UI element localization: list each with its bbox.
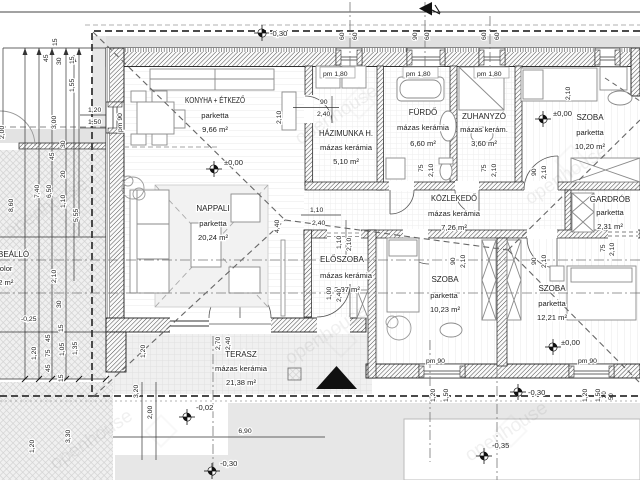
- svg-text:parketta: parketta: [201, 111, 229, 120]
- svg-text:2,10: 2,10: [609, 243, 616, 256]
- svg-text:2,10: 2,10: [565, 87, 572, 100]
- svg-text:1,35: 1,35: [72, 342, 79, 355]
- svg-text:75: 75: [418, 164, 425, 172]
- svg-text:parketta: parketta: [538, 299, 566, 308]
- svg-text:10,23 m²: 10,23 m²: [430, 305, 460, 314]
- svg-text:2,00: 2,00: [147, 406, 154, 419]
- svg-text:pm 90: pm 90: [578, 358, 597, 365]
- svg-text:1,50: 1,50: [595, 389, 602, 402]
- svg-text:6,90: 6,90: [238, 428, 251, 435]
- svg-text:pm 90: pm 90: [117, 113, 124, 132]
- svg-text:2,40: 2,40: [312, 220, 325, 227]
- svg-text:color: color: [0, 264, 13, 273]
- svg-text:NAPPALI: NAPPALI: [196, 204, 229, 213]
- svg-text:FÜRDŐ: FÜRDŐ: [409, 108, 437, 117]
- svg-text:90: 90: [320, 99, 328, 106]
- svg-text:pm 90: pm 90: [426, 358, 445, 365]
- svg-text:±0,00: ±0,00: [553, 109, 572, 118]
- svg-text:mázas kerámia: mázas kerámia: [397, 123, 450, 132]
- svg-text:60: 60: [339, 32, 346, 40]
- svg-text:45: 45: [45, 334, 52, 342]
- svg-text:KONYHA + ÉTKEZŐ: KONYHA + ÉTKEZŐ: [185, 96, 245, 105]
- svg-text:-0,02: -0,02: [196, 403, 213, 412]
- svg-text:50: 50: [609, 393, 615, 400]
- svg-text:2,10: 2,10: [491, 164, 498, 177]
- svg-text:1,20: 1,20: [140, 345, 147, 358]
- svg-text:60: 60: [494, 32, 501, 40]
- svg-text:1,20: 1,20: [88, 107, 101, 114]
- svg-text:1,20: 1,20: [582, 389, 589, 402]
- svg-text:SZOBA: SZOBA: [538, 284, 566, 293]
- svg-text:BEÁLLÓ: BEÁLLÓ: [0, 250, 29, 259]
- svg-text:20: 20: [602, 391, 608, 398]
- svg-text:2,10: 2,10: [276, 111, 283, 124]
- svg-text:GARDRÓB: GARDRÓB: [590, 195, 630, 204]
- svg-text:90: 90: [450, 257, 457, 265]
- svg-text:45: 45: [45, 364, 52, 372]
- svg-text:7,40: 7,40: [34, 185, 41, 198]
- svg-text:90: 90: [531, 168, 538, 176]
- svg-text:30: 30: [56, 300, 63, 308]
- svg-text:75: 75: [481, 164, 488, 172]
- svg-text:1,20: 1,20: [430, 389, 437, 402]
- svg-text:mázas kerámia: mázas kerámia: [428, 209, 481, 218]
- svg-text:-0,25: -0,25: [21, 316, 37, 323]
- svg-text:2,10: 2,10: [428, 164, 435, 177]
- svg-text:45: 45: [49, 152, 56, 160]
- svg-text:1,10: 1,10: [310, 207, 323, 214]
- svg-text:-0,30: -0,30: [270, 29, 287, 38]
- svg-text:±0,00: ±0,00: [561, 338, 580, 347]
- svg-text:75: 75: [45, 349, 52, 357]
- svg-text:15: 15: [69, 56, 76, 64]
- svg-text:1,20: 1,20: [29, 440, 36, 453]
- svg-text:mázas kerámia: mázas kerámia: [215, 364, 268, 373]
- svg-text:SZOBA: SZOBA: [431, 275, 459, 284]
- svg-text:75: 75: [600, 244, 607, 252]
- svg-text:3,20: 3,20: [133, 385, 140, 398]
- svg-text:±0,00: ±0,00: [224, 158, 243, 167]
- svg-text:ELŐSZOBA: ELŐSZOBA: [320, 255, 365, 264]
- svg-text:32 m²: 32 m²: [0, 278, 14, 287]
- svg-text:TERASZ: TERASZ: [225, 350, 257, 359]
- svg-text:parketta: parketta: [199, 219, 227, 228]
- svg-text:1,05: 1,05: [59, 343, 66, 356]
- svg-text:2,10: 2,10: [346, 238, 353, 251]
- svg-text:2,40: 2,40: [336, 289, 343, 302]
- svg-text:3,60 m²: 3,60 m²: [471, 139, 497, 148]
- svg-text:1,55: 1,55: [69, 79, 76, 92]
- svg-text:mázas kerámia: mázas kerámia: [320, 143, 373, 152]
- svg-text:2,70: 2,70: [215, 337, 222, 350]
- svg-text:4,40: 4,40: [274, 220, 281, 233]
- svg-text:parketta: parketta: [430, 291, 458, 300]
- svg-text:8,60: 8,60: [8, 199, 15, 212]
- svg-text:60: 60: [352, 32, 359, 40]
- svg-text:1,50: 1,50: [443, 389, 450, 402]
- svg-text:2,10: 2,10: [51, 270, 58, 283]
- svg-text:90: 90: [412, 32, 419, 40]
- svg-text:mázas kerámia: mázas kerámia: [320, 271, 373, 280]
- svg-text:1,10: 1,10: [336, 236, 343, 249]
- svg-text:1,00: 1,00: [326, 287, 333, 300]
- svg-text:pm 1,80: pm 1,80: [477, 71, 502, 78]
- svg-text:2,10: 2,10: [541, 255, 548, 268]
- svg-text:15: 15: [52, 38, 59, 46]
- svg-text:45: 45: [43, 54, 50, 62]
- svg-text:30: 30: [60, 140, 67, 148]
- svg-text:2,10: 2,10: [460, 255, 467, 268]
- svg-text:KÖZLEKEDŐ: KÖZLEKEDŐ: [431, 194, 477, 203]
- svg-text:90: 90: [531, 257, 538, 265]
- svg-text:20,24 m²: 20,24 m²: [198, 233, 228, 242]
- svg-text:5,10 m²: 5,10 m²: [333, 157, 359, 166]
- svg-text:15: 15: [58, 324, 65, 332]
- svg-text:1,20: 1,20: [31, 347, 38, 360]
- svg-text:pm 1,80: pm 1,80: [323, 71, 348, 78]
- svg-text:15: 15: [58, 374, 65, 382]
- svg-text:ZUHANYZÓ: ZUHANYZÓ: [462, 112, 506, 121]
- svg-text:1,50: 1,50: [88, 119, 101, 126]
- svg-text:2,00: 2,00: [0, 126, 6, 139]
- svg-text:6,60 m²: 6,60 m²: [410, 139, 436, 148]
- svg-text:parketta: parketta: [596, 208, 624, 217]
- svg-text:12,21 m²: 12,21 m²: [537, 313, 567, 322]
- svg-text:SZOBA: SZOBA: [576, 113, 604, 122]
- svg-text:20: 20: [60, 170, 67, 178]
- svg-text:21,38 m²: 21,38 m²: [226, 378, 256, 387]
- svg-text:pm 1,80: pm 1,80: [406, 71, 431, 78]
- svg-text:-0,30: -0,30: [220, 459, 237, 468]
- svg-text:2,31 m²: 2,31 m²: [597, 222, 623, 231]
- svg-text:60: 60: [481, 32, 488, 40]
- svg-text:2,40: 2,40: [225, 337, 232, 350]
- svg-text:mázas kerám.: mázas kerám.: [460, 125, 508, 134]
- svg-text:parketta: parketta: [576, 128, 604, 137]
- svg-text:3,00: 3,00: [51, 116, 58, 129]
- svg-text:7,26 m²: 7,26 m²: [441, 223, 467, 232]
- svg-text:-0,30: -0,30: [528, 388, 545, 397]
- svg-text:30: 30: [56, 57, 63, 65]
- svg-text:60: 60: [424, 32, 431, 40]
- svg-text:9,66 m²: 9,66 m²: [202, 125, 228, 134]
